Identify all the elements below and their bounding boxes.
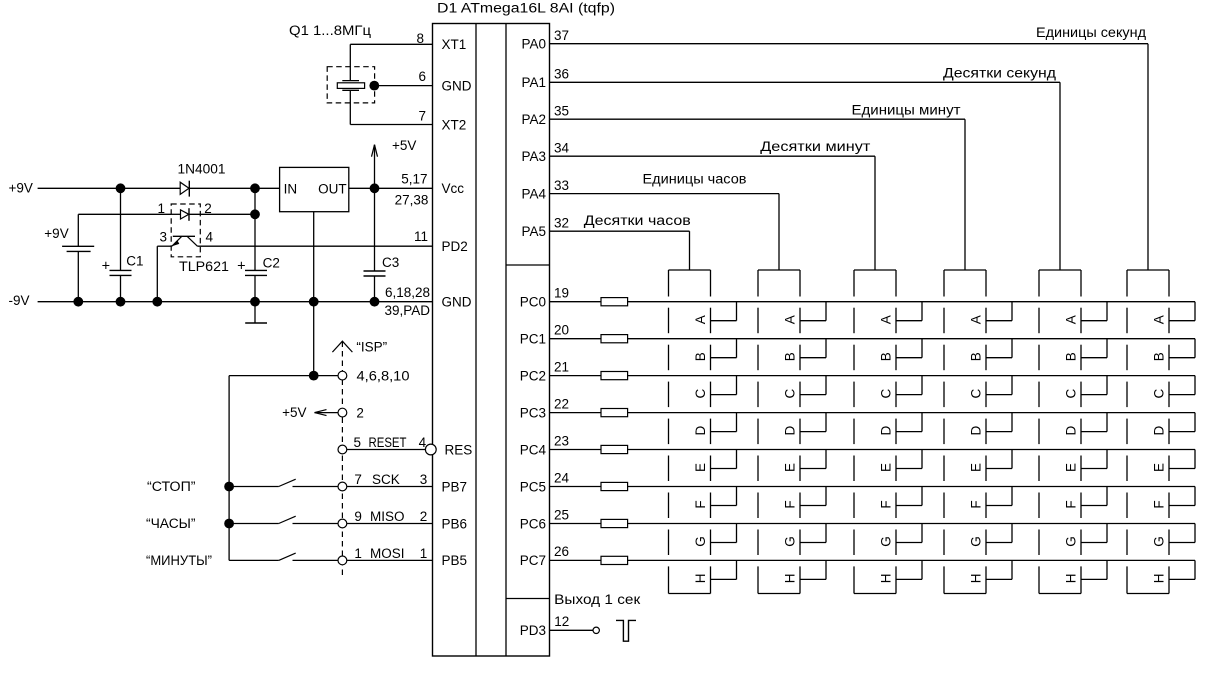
wire RESET: [347, 449, 426, 451]
wire GND pin 6: [374, 85, 432, 87]
display HG6 side rails row Е: [1127, 456, 1169, 482]
resistor R8: [601, 556, 628, 564]
svg-text:F: F: [783, 500, 798, 508]
wire -9V rail to GND pin: [38, 301, 433, 303]
junction ISP ground node: [309, 371, 319, 381]
capacitor C3 label: [382, 255, 399, 270]
display HG4 segment label А: [969, 315, 984, 324]
capacitor C2 plus: [237, 258, 245, 274]
wire display HG6 segment Е tap: [1169, 450, 1195, 469]
display HG3 segment label G: [879, 536, 894, 547]
IC pin name PA0: [521, 37, 546, 52]
svg-text:21: 21: [554, 359, 569, 374]
display HG3 side rails row А: [854, 308, 896, 334]
wire PC6 bus: [628, 523, 1195, 525]
pin number 1 opto: [157, 201, 165, 216]
IC pin name PA3: [521, 149, 546, 164]
display HG2 segment label F: [783, 500, 798, 508]
svg-text:6,18,28: 6,18,28: [385, 285, 430, 300]
wire ISP gnd row: [229, 375, 338, 377]
display HG3 segment label Е: [879, 463, 894, 472]
svg-text:Н: Н: [1064, 574, 1079, 584]
svg-text:33: 33: [554, 178, 569, 193]
display HG6 segment label F: [1152, 500, 1167, 508]
net label +9V: [9, 181, 33, 196]
svg-text:GND: GND: [442, 78, 472, 93]
pin number 23: [554, 433, 569, 448]
wire display HG3 segment D tap: [896, 413, 922, 432]
IC pin name GND: [442, 78, 472, 93]
display HG1 side rails row D: [669, 419, 711, 445]
svg-text:D: D: [693, 425, 708, 435]
wire PC1 bus: [628, 338, 1195, 340]
svg-text:G: G: [783, 536, 798, 547]
display HG5 segment label Е: [1064, 463, 1079, 472]
button label SB3 МИНУТЫ: [146, 553, 212, 568]
svg-text:Н: Н: [1152, 574, 1167, 584]
pin number 12: [554, 614, 569, 629]
display HG1 segment label Н: [693, 574, 708, 584]
display HG4 side rails row Н: [944, 566, 986, 593]
svg-text:3: 3: [159, 229, 167, 244]
wire display HG4 segment С tap: [986, 376, 1012, 395]
svg-text:D: D: [783, 425, 798, 435]
svg-text:+9V: +9V: [9, 181, 33, 196]
pin numbers 4,6,8,10: [357, 369, 410, 384]
svg-text:PC2: PC2: [520, 368, 546, 383]
wire display HG6 segment В tap: [1169, 339, 1195, 358]
wire display HG2 segment G tap: [800, 524, 826, 543]
net label +5V: [392, 138, 416, 153]
wire PC5 bus: [628, 486, 1195, 488]
wire PC7 bus: [628, 559, 1195, 561]
display HG4 segment label С: [969, 388, 984, 398]
display HG4 side rails row В: [944, 345, 986, 371]
wire PA1 pin 36 to display 5: [550, 82, 1061, 270]
wire display HG1 segment F tap: [711, 487, 737, 506]
display HG3 side rails row Е: [854, 456, 896, 482]
display HG1 segment label G: [693, 536, 708, 547]
junction C1 ground: [116, 297, 126, 307]
display HG6 side rails row Н: [1127, 566, 1169, 593]
wire button SB2 ЧАСЫ left: [229, 523, 279, 525]
ISP pin circle 7: [338, 482, 347, 491]
display HG5 side rails row D: [1039, 419, 1081, 445]
IC pin name PC2: [520, 368, 546, 383]
svg-text:С: С: [783, 388, 798, 398]
display HG2 segment label D: [783, 425, 798, 435]
junction +9V at C1: [116, 183, 126, 193]
display HG4 segment label Н: [969, 574, 984, 584]
svg-text:Е: Е: [783, 463, 798, 472]
svg-text:4,6,8,10: 4,6,8,10: [357, 369, 410, 384]
display HG6 segment label D: [1152, 425, 1167, 435]
pin number 6: [418, 69, 426, 84]
IC pin name Vcc: [442, 181, 465, 196]
svg-text:PB5: PB5: [442, 553, 468, 568]
svg-text:С: С: [969, 388, 984, 398]
display HG6 side rails row F: [1127, 493, 1169, 519]
wire display HG2 segment Н tap: [800, 560, 826, 579]
svg-text:Vcc: Vcc: [442, 181, 465, 196]
connector label ISP: [356, 340, 387, 355]
resistor R2: [601, 335, 628, 343]
IC pin name RES: [445, 442, 473, 457]
display HG2 side rails row G: [758, 530, 800, 556]
capacitor C1 plus: [102, 258, 110, 274]
ground symbol: [245, 302, 267, 323]
svg-text:“МИНУТЫ”: “МИНУТЫ”: [146, 553, 212, 568]
wire display HG4 segment D tap: [986, 413, 1012, 432]
wire display HG5 segment D tap: [1081, 413, 1107, 432]
svg-text:PA0: PA0: [521, 37, 546, 52]
svg-text:G: G: [693, 536, 708, 547]
IC pin name PC3: [520, 405, 546, 420]
resistor R3: [601, 372, 628, 380]
svg-text:D1 ATmega16L 8AI (tqfp): D1 ATmega16L 8AI (tqfp): [437, 0, 615, 15]
IC pin name PB5: [442, 553, 468, 568]
display HG3 segment label С: [879, 388, 894, 398]
svg-text:+5V: +5V: [282, 405, 306, 420]
svg-text:27,38: 27,38: [395, 193, 429, 208]
net label Выход 1 сек: [554, 592, 640, 607]
svg-text:PA2: PA2: [521, 112, 546, 127]
wire display HG5 segment F tap: [1081, 487, 1107, 506]
wire display HG2 segment С tap: [800, 376, 826, 395]
svg-text:PC1: PC1: [520, 332, 546, 347]
svg-text:PD2: PD2: [442, 239, 468, 254]
display HG5 segment label Н: [1064, 574, 1079, 584]
display HG6 segment label Е: [1152, 463, 1167, 472]
display HG2 side rails row В: [758, 345, 800, 371]
net label +5V at ISP: [282, 405, 306, 420]
svg-text:Н: Н: [693, 574, 708, 584]
wire XT2 pin 7: [350, 124, 432, 126]
wire button SB1 СТОП right: [293, 486, 339, 488]
display HG5 segment label D: [1064, 425, 1079, 435]
svg-text:Н: Н: [879, 574, 894, 584]
svg-text:F: F: [1064, 500, 1079, 508]
wire button SB3 МИНУТЫ right: [293, 559, 339, 561]
svg-text:PA1: PA1: [521, 75, 546, 90]
svg-text:PA3: PA3: [521, 149, 546, 164]
wire display HG4 segment Н tap: [986, 560, 1012, 579]
display HG5 side rails row В: [1039, 345, 1081, 371]
wire PC0 bus: [628, 301, 1195, 303]
svg-text:-9V: -9V: [9, 293, 30, 308]
svg-text:PD3: PD3: [520, 623, 546, 638]
display HG4 side rails row С: [944, 382, 986, 408]
display HG3 top box: [854, 270, 896, 297]
svg-text:Десятки часов: Десятки часов: [584, 213, 691, 228]
battery GB1 symbol: [62, 246, 94, 251]
display HG1 side rails row Е: [669, 456, 711, 482]
resistor R6: [601, 482, 628, 490]
svg-text:F: F: [1152, 500, 1167, 508]
IC pin name XT1: [442, 37, 467, 52]
IC D1 title label: [437, 0, 615, 15]
power arrow +5V: [372, 145, 378, 189]
wire PA3 pin 34 to display 3: [550, 156, 876, 270]
display HG2 segment label В: [783, 352, 798, 361]
net label Единицы минут: [852, 102, 961, 117]
regulator label OUT: [318, 182, 347, 197]
display HG1 bottom edge: [669, 593, 711, 595]
display HG3 segment label А: [879, 315, 894, 324]
display HG2 bottom edge: [758, 593, 800, 595]
wire display HG2 segment D tap: [800, 413, 826, 432]
svg-text:+: +: [237, 258, 245, 274]
svg-text:С: С: [879, 388, 894, 398]
svg-text:В: В: [783, 352, 798, 361]
wire PC2 pin 21 stub: [550, 375, 602, 377]
wire display HG4 segment В tap: [986, 339, 1012, 358]
display HG5 side rails row Н: [1039, 566, 1081, 593]
resistor R4: [601, 409, 628, 417]
junction diode out at C2 branch: [250, 183, 260, 193]
svg-text:F: F: [969, 500, 984, 508]
wire crystal left lead: [349, 44, 351, 124]
junction opto cathode at C2: [250, 209, 260, 219]
pin numbers 6,18,28: [385, 285, 430, 300]
svg-text:Единицы часов: Единицы часов: [643, 171, 747, 186]
pin number 2 ISP: [356, 406, 364, 421]
pin numbers 5,17: [401, 171, 427, 186]
IC pin name PA5: [521, 224, 546, 239]
svg-text:Н: Н: [783, 574, 798, 584]
display HG4 segment label F: [969, 500, 984, 508]
display HG6 side rails row А: [1127, 308, 1169, 334]
net label -9V: [9, 293, 30, 308]
IC pin name PC6: [520, 516, 546, 531]
svg-text:Q1 1...8МГц: Q1 1...8МГц: [289, 23, 371, 38]
pin number 7 ISP: [354, 472, 362, 487]
button label SB2 ЧАСЫ: [146, 516, 196, 531]
display HG5 segment label С: [1064, 388, 1079, 398]
svg-text:6: 6: [418, 69, 426, 84]
PD3 output circle: [593, 627, 599, 633]
svg-text:D: D: [879, 425, 894, 435]
display HG6 segment label С: [1152, 388, 1167, 398]
wire PC2 bus: [628, 375, 1195, 377]
wire display HG6 segment Н tap: [1169, 560, 1195, 579]
wire display HG4 segment F tap: [986, 487, 1012, 506]
crystal Q1 symbol: [337, 81, 364, 91]
wire display HG3 segment F tap: [896, 487, 922, 506]
display HG3 side rails row F: [854, 493, 896, 519]
junction battery to -9V rail: [73, 297, 83, 307]
display HG2 segment label Е: [783, 463, 798, 472]
wire PC7 pin 26 stub: [550, 559, 602, 561]
wire display HG6 segment F tap: [1169, 487, 1195, 506]
display HG2 top box: [758, 270, 800, 297]
svg-text:SCK: SCK: [372, 472, 400, 487]
svg-text:D: D: [1064, 425, 1079, 435]
net label MOSI: [370, 546, 405, 561]
svg-text:PB7: PB7: [442, 479, 468, 494]
pin number 37: [554, 28, 569, 43]
display HG1 segment label F: [693, 500, 708, 508]
resistor R1: [601, 298, 628, 306]
ISP pin circle 9: [338, 519, 347, 528]
svg-text:C3: C3: [382, 255, 399, 270]
svg-text:Е: Е: [879, 463, 894, 472]
junction crystal case to GND: [369, 81, 379, 91]
svg-text:39,PAD: 39,PAD: [384, 303, 430, 318]
display HG2 segment label А: [783, 315, 798, 324]
display HG4 bottom edge: [944, 593, 986, 595]
net label Десятки минут: [760, 139, 870, 154]
display HG6 side rails row С: [1127, 382, 1169, 408]
display HG2 segment label Н: [783, 574, 798, 584]
svg-text:20: 20: [554, 323, 569, 338]
display HG1 side rails row Н: [669, 566, 711, 593]
wire display HG5 segment С tap: [1081, 376, 1107, 395]
svg-text:TLP621: TLP621: [179, 259, 229, 274]
display HG1 top box: [669, 270, 711, 297]
wire display HG1 segment D tap: [711, 413, 737, 432]
wire display HG5 segment G tap: [1081, 524, 1107, 543]
pin number 11: [414, 229, 428, 244]
svg-text:PC4: PC4: [520, 442, 547, 457]
svg-text:Десятки секунд: Десятки секунд: [943, 65, 1056, 80]
svg-text:PC3: PC3: [520, 405, 546, 420]
wire display HG1 segment Е tap: [711, 450, 737, 469]
wire display HG2 segment В tap: [800, 339, 826, 358]
IC pin name PB6: [442, 516, 468, 531]
wire PC1 pin 20 stub: [550, 338, 602, 340]
IC pin name PD2: [442, 239, 468, 254]
display HG5 side rails row F: [1039, 493, 1081, 519]
svg-text:5,17: 5,17: [401, 171, 427, 186]
svg-text:23: 23: [554, 433, 569, 448]
pin number 7: [418, 109, 426, 124]
pin number 3 opto: [159, 229, 167, 244]
IC pin name PB7: [442, 479, 468, 494]
switch SB3 МИНУТЫ blade: [279, 553, 296, 560]
display HG4 segment label G: [969, 536, 984, 547]
svg-text:Е: Е: [1064, 463, 1079, 472]
wire display HG3 segment А tap: [896, 302, 922, 321]
IC RES inversion bubble: [425, 444, 436, 455]
svg-text:2: 2: [420, 509, 428, 524]
svg-text:С: С: [693, 388, 708, 398]
wire display HG2 segment А tap: [800, 302, 826, 321]
svg-text:PC7: PC7: [520, 553, 546, 568]
display HG2 side rails row А: [758, 308, 800, 334]
display HG5 side rails row А: [1039, 308, 1081, 334]
wire display HG4 segment Е tap: [986, 450, 1012, 469]
wire display HG6 segment А tap: [1169, 302, 1195, 321]
junction +5V node: [370, 183, 380, 193]
svg-text:MOSI: MOSI: [370, 546, 405, 561]
svg-text:Н: Н: [969, 574, 984, 584]
wire display HG5 segment Н tap: [1081, 560, 1107, 579]
svg-text:32: 32: [554, 215, 569, 230]
pin number 4 RES: [419, 435, 427, 450]
wire PC4 bus: [628, 449, 1195, 451]
net label Десятки часов: [584, 213, 691, 228]
IC pin name PC1: [520, 332, 546, 347]
ISP pin circle 1: [338, 556, 347, 565]
display HG4 segment label D: [969, 425, 984, 435]
svg-text:XT2: XT2: [442, 117, 467, 132]
wire PC6 pin 25 stub: [550, 523, 602, 525]
wire display HG6 segment G tap: [1169, 524, 1195, 543]
pin number 1 PB: [420, 546, 428, 561]
IC pin name PC5: [520, 479, 546, 494]
svg-text:GND: GND: [442, 295, 472, 310]
svg-text:C1: C1: [126, 254, 143, 269]
svg-text:PA5: PA5: [521, 224, 546, 239]
pin number 2 opto: [204, 201, 212, 216]
svg-text:С: С: [1064, 388, 1079, 398]
svg-text:А: А: [1152, 315, 1167, 324]
svg-text:А: А: [783, 315, 798, 324]
IC pin name PA2: [521, 112, 546, 127]
svg-text:Е: Е: [969, 463, 984, 472]
pin number 8: [416, 31, 424, 46]
display HG1 side rails row F: [669, 493, 711, 519]
ISP pin circle 2: [338, 408, 347, 417]
battery GB1 label +9V: [44, 226, 68, 241]
svg-text:4: 4: [206, 229, 214, 244]
display HG3 segment label В: [879, 352, 894, 361]
display HG5 side rails row С: [1039, 382, 1081, 408]
pin number 2 PB: [420, 509, 428, 524]
svg-text:PC6: PC6: [520, 516, 546, 531]
wire display HG5 segment А tap: [1081, 302, 1107, 321]
pin number 20: [554, 323, 569, 338]
wire display HG1 segment G tap: [711, 524, 737, 543]
wire display HG1 segment В tap: [711, 339, 737, 358]
wire XT1 pin 8: [350, 43, 432, 45]
display HG6 segment label Н: [1152, 574, 1167, 584]
display HG5 top box: [1039, 270, 1081, 297]
pin number 1 ISP: [354, 546, 362, 561]
display HG5 segment label А: [1064, 315, 1079, 324]
display HG1 side rails row С: [669, 382, 711, 408]
svg-text:2: 2: [356, 406, 364, 421]
wire regulator GND pin: [313, 212, 315, 302]
svg-text:XT1: XT1: [442, 37, 467, 52]
pin number 33: [554, 178, 569, 193]
IC pin name PD3: [520, 623, 546, 638]
display HG1 side rails row G: [669, 530, 711, 556]
wire PA4 pin 33 to display 2: [550, 194, 780, 270]
button label SB1 СТОП: [147, 479, 196, 494]
svg-text:А: А: [969, 315, 984, 324]
display HG5 side rails row G: [1039, 530, 1081, 556]
display HG5 bottom edge: [1039, 593, 1081, 595]
display HG5 segment label F: [1064, 500, 1079, 508]
junction button SB1 СТОП: [224, 482, 234, 492]
svg-text:OUT: OUT: [318, 182, 347, 197]
switch SB1 СТОП blade: [279, 479, 296, 486]
display HG4 top box: [944, 270, 986, 297]
display HG6 side rails row В: [1127, 345, 1169, 371]
wire SCK to PB: [347, 486, 433, 488]
wire diode to regulator IN: [189, 187, 279, 189]
svg-text:А: А: [693, 315, 708, 324]
svg-text:1: 1: [157, 201, 165, 216]
wire display HG6 segment D tap: [1169, 413, 1195, 432]
svg-text:35: 35: [554, 103, 569, 118]
wire display HG5 segment Е tap: [1081, 450, 1107, 469]
pin numbers 27,38: [395, 193, 429, 208]
display HG2 side rails row F: [758, 493, 800, 519]
pin number 3 PB: [420, 472, 428, 487]
